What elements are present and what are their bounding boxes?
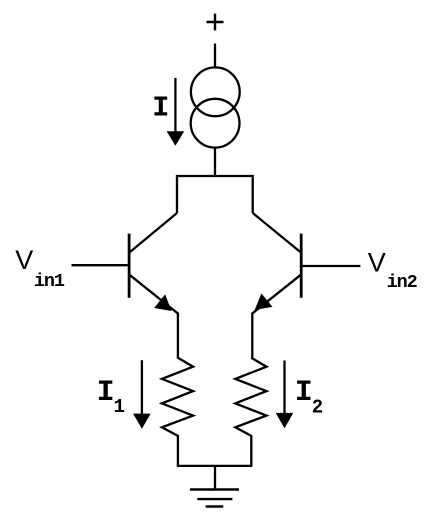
current arrow I2 xyxy=(276,361,294,429)
resistor R1 xyxy=(162,358,193,436)
svg-text:I: I xyxy=(152,92,169,125)
svg-text:2: 2 xyxy=(312,397,323,419)
resistor R2 xyxy=(235,358,266,436)
transistor Q1 xyxy=(129,213,178,314)
wire supply to current source xyxy=(214,44,216,69)
svg-text:V: V xyxy=(368,248,386,278)
current source I1 (two overlapping circles) xyxy=(191,67,240,147)
wire R2 to bottom rail xyxy=(250,435,252,466)
wire base Q1 xyxy=(72,264,128,266)
svg-text:I: I xyxy=(97,376,115,410)
wire current source to junction xyxy=(214,148,216,176)
node + supply terminal xyxy=(207,14,224,31)
wire Q2 emitter to R2 xyxy=(251,313,253,359)
wire Q1 emitter to R1 xyxy=(177,313,179,359)
current arrow I1 xyxy=(133,360,151,429)
svg-text:in2: in2 xyxy=(387,272,418,293)
wire rail to ground xyxy=(214,466,216,490)
svg-text:V: V xyxy=(15,245,33,275)
current arrow I xyxy=(167,78,185,146)
transistor Q2 xyxy=(252,213,301,314)
wire R1 to bottom rail xyxy=(177,435,179,466)
ground xyxy=(190,490,239,507)
svg-text:1: 1 xyxy=(114,396,125,418)
wire base Q2 xyxy=(303,265,361,267)
svg-text:in1: in1 xyxy=(34,271,65,292)
svg-text:I: I xyxy=(295,376,313,410)
wire top junction bar xyxy=(177,176,253,213)
wire bottom rail xyxy=(177,465,253,467)
